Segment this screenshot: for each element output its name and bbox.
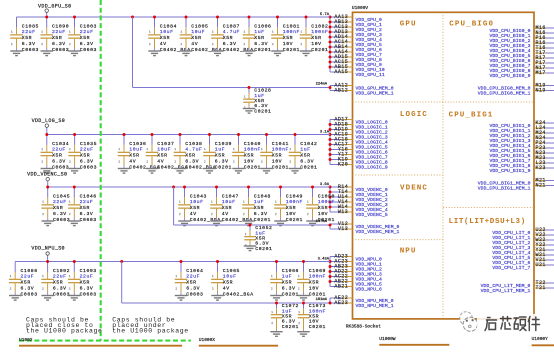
svg-text:1: 1 [245, 233, 247, 236]
junction dots branch VDD_GPU_S0 [248, 86, 251, 89]
ground [68, 169, 80, 174]
pin N19 VDD_CPU_BIG0_MEM_1 [478, 87, 554, 96]
svg-text:22uF: 22uF [53, 199, 67, 205]
svg-text:C1043: C1043 [190, 193, 207, 199]
selection boundary horizontal (green dashed) [19, 340, 191, 342]
capacitor C1043 [178, 187, 220, 226]
svg-text:V13: V13 [338, 226, 348, 232]
svg-text:224mA: 224mA [316, 83, 328, 87]
svg-text:2: 2 [275, 213, 277, 216]
svg-text:22uF: 22uF [52, 29, 66, 35]
svg-text:VDD_NPU_6: VDD_NPU_6 [356, 286, 382, 292]
pin fan CPU_BIG0 [489, 25, 554, 79]
svg-text:1uF: 1uF [282, 308, 292, 314]
power port VDD_VDENC_S0 [27, 171, 67, 181]
pin fan VDENC [329, 184, 388, 218]
wire port drop VDD_GPU_S0 [46, 12, 48, 17]
svg-text:1: 1 [41, 31, 43, 34]
svg-text:2: 2 [204, 160, 206, 163]
pin V21 VDD_CPU_LIT_6 [492, 257, 554, 266]
svg-text:3.1A: 3.1A [320, 130, 330, 134]
svg-text:C1049: C1049 [286, 193, 303, 199]
svg-text:10uF: 10uF [223, 274, 237, 280]
svg-text:4V: 4V [129, 159, 136, 165]
svg-text:1: 1 [244, 95, 246, 98]
svg-text:N21: N21 [536, 182, 546, 188]
svg-text:C0603: C0603 [52, 164, 69, 170]
wire branch drop VDD_GPU_S0 [132, 17, 134, 88]
ground [270, 296, 282, 301]
svg-text:C0603: C0603 [53, 291, 70, 297]
svg-text:2: 2 [149, 43, 151, 46]
svg-text:6.3V: 6.3V [282, 319, 296, 325]
svg-text:AE23: AE23 [334, 300, 348, 306]
ground [10, 51, 22, 56]
svg-text:X5R: X5R [160, 35, 170, 41]
svg-text:M17: M17 [536, 70, 546, 76]
svg-text:VDD_CPU_BIG0_9: VDD_CPU_BIG0_9 [489, 73, 530, 79]
svg-text:22uF: 22uF [53, 274, 67, 280]
ground [274, 221, 286, 226]
pin M19 VDD_CPU_BIG0_MEM_0 [478, 82, 554, 91]
svg-text:C1086: C1086 [21, 268, 38, 274]
svg-text:the U1000 package: the U1000 package [112, 328, 189, 335]
pin AE23 VDD_NPU_MEM_1 [330, 300, 394, 309]
svg-text:C1085: C1085 [22, 23, 39, 29]
svg-text:6.3V: 6.3V [22, 41, 36, 47]
svg-text:U1000W: U1000W [379, 336, 396, 342]
svg-text:C0402_BGA: C0402_BGA [157, 164, 188, 170]
svg-text:4V: 4V [160, 41, 167, 47]
pin Y17 VDD_LOGIC_7 [330, 151, 388, 160]
ground [242, 221, 254, 226]
svg-text:1: 1 [175, 275, 177, 278]
svg-text:C0201: C0201 [300, 164, 317, 170]
svg-text:C0603: C0603 [80, 291, 97, 297]
svg-text:10V: 10V [309, 319, 319, 325]
section divider horizontal GPU/LOGIC [353, 101, 535, 103]
svg-text:C1084: C1084 [160, 23, 177, 29]
svg-text:C0201: C0201 [309, 291, 326, 297]
capacitor C1049 [274, 187, 303, 226]
svg-text:C1003: C1003 [80, 23, 97, 29]
power port VDD_LOG_S0 [32, 118, 66, 128]
wire branch fan VDD_NPU_S0 [329, 298, 331, 303]
pin Y16 VDD_LOGIC_6 [330, 146, 388, 155]
svg-text:C1042: C1042 [300, 141, 317, 147]
pin T21 VDD_CPU_LIT_MEM_1 [481, 285, 554, 294]
pin R16 VDD_CPU_BIG0_3 [489, 40, 554, 49]
wire branch VDD_NPU_S0 [122, 302, 330, 304]
capacitor C1081 [271, 17, 300, 56]
svg-text:VDD_NPU_S0: VDD_NPU_S0 [31, 246, 65, 252]
svg-text:VDD_CPU_BIG1_MEM_1: VDD_CPU_BIG1_MEM_1 [478, 185, 531, 191]
svg-text:6.3V: 6.3V [52, 159, 66, 165]
pin AD22 VDD_NPU_3 [330, 268, 382, 277]
svg-text:X5R: X5R [309, 314, 319, 320]
svg-text:2: 2 [298, 322, 300, 325]
svg-text:C0603: C0603 [22, 47, 39, 53]
pin M23 VDD_CPU_BIG1_7 [489, 155, 554, 164]
svg-text:X5R: X5R [318, 205, 328, 211]
svg-text:1: 1 [211, 201, 213, 204]
pin N21 VDD_CPU_BIG1_MEM_1 [478, 182, 554, 191]
pin AB14 VDD_GPU_6 [330, 44, 382, 53]
svg-text:X5R: X5R [244, 153, 254, 159]
svg-text:6.3V: 6.3V [80, 286, 94, 292]
svg-text:VDD_VDENC_MEM_1: VDD_VDENC_MEM_1 [356, 229, 400, 235]
svg-text:6.3V: 6.3V [52, 41, 66, 47]
ground [210, 221, 222, 226]
svg-text:6.3V: 6.3V [80, 41, 94, 47]
svg-text:U1000V: U1000V [352, 5, 369, 11]
svg-text:X5R: X5R [282, 314, 292, 320]
section divider horizontal CPU_BIG1/LIT [443, 206, 534, 208]
svg-text:the U1000 package: the U1000 package [26, 328, 103, 335]
pin AA14 VDD_GPU_7 [330, 49, 382, 58]
svg-text:6.3V: 6.3V [254, 211, 268, 217]
capacitor C1037 [146, 135, 188, 174]
ground [68, 296, 80, 301]
pin M21 VDD_CPU_BIG1_MEM_0 [478, 177, 554, 186]
pin fan CPU_BIG1 MEM [478, 177, 554, 191]
svg-text:C1093: C1093 [80, 268, 97, 274]
svg-text:2: 2 [289, 160, 291, 163]
svg-text:2: 2 [69, 213, 71, 216]
svg-text:C1048: C1048 [254, 193, 271, 199]
svg-text:2: 2 [42, 287, 44, 290]
svg-text:10uF: 10uF [191, 29, 205, 35]
svg-text:1: 1 [179, 201, 181, 204]
pin AB22 VDD_NPU_5 [330, 278, 382, 287]
junction dots VDD_NPU_S0 [46, 260, 305, 263]
pin fan LIT MEM [481, 280, 554, 294]
ground [118, 169, 130, 174]
pin N16 VDD_CPU_BIG0_1 [489, 30, 554, 39]
svg-text:C1039: C1039 [215, 141, 232, 147]
svg-text:C1036: C1036 [129, 141, 146, 147]
pin AC14 VDD_GPU_5 [330, 39, 382, 48]
symbol fragment edge below U1000X [199, 345, 278, 347]
svg-text:1: 1 [275, 201, 277, 204]
ground [260, 169, 272, 174]
svg-text:6.3V: 6.3V [254, 41, 268, 47]
svg-text:X5R: X5R [53, 280, 63, 286]
svg-text:1: 1 [272, 31, 274, 34]
svg-text:100nF: 100nF [283, 29, 300, 35]
svg-text:2: 2 [175, 287, 177, 290]
svg-text:U21: U21 [536, 262, 546, 268]
svg-text:22uF: 22uF [80, 147, 94, 153]
svg-text:22uF: 22uF [80, 29, 94, 35]
svg-text:1: 1 [149, 31, 151, 34]
svg-text:C1087: C1087 [223, 23, 240, 29]
ground [211, 51, 223, 56]
pin W14 VDD_VDENC_4 [330, 204, 388, 213]
wire bus VDD_VDENC_S0 [48, 186, 330, 188]
pin K23 VDD_CPU_BIG1_9 [489, 165, 554, 174]
ground [180, 51, 192, 56]
wire branch drop VDD_NPU_S0 [121, 262, 123, 304]
svg-text:1: 1 [42, 275, 44, 278]
svg-text:10uF: 10uF [160, 29, 174, 35]
svg-text:C1072: C1072 [282, 303, 299, 309]
svg-text:4V: 4V [190, 211, 197, 217]
svg-text:1: 1 [289, 148, 291, 151]
svg-text:2: 2 [42, 213, 44, 216]
pin K24 VDD_CPU_BIG1_0 [489, 120, 554, 129]
svg-text:2: 2 [41, 160, 43, 163]
svg-text:VDD_CPU_LIT_MEM_1: VDD_CPU_LIT_MEM_1 [481, 288, 531, 294]
svg-text:X5R: X5R [215, 153, 225, 159]
svg-text:6.3V: 6.3V [80, 211, 94, 217]
svg-text:100nF: 100nF [244, 147, 261, 153]
svg-text:3.43A: 3.43A [318, 257, 330, 261]
svg-text:1: 1 [41, 148, 43, 151]
junction dots branch VDD_NPU_S0 [275, 302, 305, 305]
svg-text:AA15: AA15 [334, 69, 348, 75]
svg-text:10uF: 10uF [129, 147, 143, 153]
capacitor C1050 [306, 187, 335, 226]
pin AD14 VDD_GPU_4 [330, 34, 382, 43]
pin P24 VDD_CPU_BIG1_4 [489, 140, 554, 149]
ground [178, 221, 190, 226]
svg-text:C1037: C1037 [157, 141, 174, 147]
svg-text:1: 1 [69, 148, 71, 151]
svg-text:C1047: C1047 [222, 193, 239, 199]
svg-text:C0201: C0201 [254, 217, 271, 223]
svg-text:C1069: C1069 [309, 268, 326, 274]
pin U21 VDD_CPU_LIT_7 [492, 262, 554, 271]
svg-text:C1050: C1050 [318, 193, 335, 199]
svg-text:C0201: C0201 [282, 291, 299, 297]
pin AC18 VDD_LOGIC_4 [330, 136, 388, 145]
svg-text:C0603: C0603 [186, 291, 203, 297]
wire branch VDD_VDENC_S0 [174, 224, 330, 226]
svg-text:VDD_CPU_BIG1_9: VDD_CPU_BIG1_9 [489, 168, 530, 174]
note text: caps under package [112, 316, 189, 334]
capacitor C1082 [300, 17, 329, 56]
svg-text:C0402_BGA: C0402_BGA [129, 164, 160, 170]
svg-text:22uF: 22uF [21, 274, 35, 280]
svg-text:X5R: X5R [80, 280, 90, 286]
svg-text:X5R: X5R [191, 35, 201, 41]
svg-text:X5R: X5R [80, 205, 90, 211]
junction dots VDD_LOG_S0 [45, 133, 296, 136]
svg-text:C1073: C1073 [309, 303, 326, 309]
svg-text:C1081: C1081 [283, 23, 300, 29]
pin fan LIT [492, 227, 554, 271]
capacitor C1052 [244, 225, 273, 252]
pin N17 VDD_CPU_BIG0_8 [489, 65, 554, 74]
svg-text:6.3V: 6.3V [185, 159, 199, 165]
svg-text:C1092: C1092 [53, 268, 70, 274]
svg-text:X5R: X5R [157, 153, 167, 159]
svg-text:10V: 10V [283, 41, 293, 47]
pin Y22 VDD_CPU_LIT_3 [492, 242, 554, 251]
svg-text:2: 2 [271, 287, 273, 290]
svg-text:AB21: AB21 [334, 283, 348, 289]
svg-text:1uF: 1uF [255, 230, 265, 236]
svg-text:1: 1 [298, 311, 300, 314]
svg-text:2: 2 [243, 43, 245, 46]
svg-text:100nF: 100nF [272, 147, 289, 153]
pin AC15 VDD_GPU_9 [330, 59, 382, 68]
svg-text:X5R: X5R [309, 280, 319, 286]
svg-text:X5R: X5R [223, 280, 233, 286]
power port VDD_GPU_S0 [38, 4, 72, 13]
svg-text:22uF: 22uF [186, 274, 200, 280]
svg-text:10uF: 10uF [222, 199, 236, 205]
pin fan GPU [329, 14, 385, 78]
capacitor C1093 [68, 262, 97, 301]
pin T14 VDD_VDENC_1 [330, 189, 388, 198]
svg-text:6.3V: 6.3V [53, 286, 67, 292]
capacitor C1064 [175, 262, 204, 301]
ground [243, 109, 255, 114]
section divider horizontal VDENC/NPU [353, 239, 444, 241]
svg-text:C1041: C1041 [272, 141, 289, 147]
svg-text:N19: N19 [536, 87, 546, 93]
svg-text:2: 2 [180, 43, 182, 46]
capacitor C1028 [243, 88, 272, 115]
ground [271, 51, 283, 56]
svg-text:RK3588-Socket: RK3588-Socket [346, 324, 381, 330]
svg-text:U1000X: U1000X [199, 337, 216, 343]
wire bus VDD_NPU_S0 [15, 261, 330, 263]
svg-text:GPU: GPU [400, 20, 417, 28]
svg-text:X5R: X5R [53, 205, 63, 211]
pin K19 VDD_LOGIC_8 [330, 156, 388, 165]
svg-text:1: 1 [243, 31, 245, 34]
capacitor C1005 [180, 17, 222, 56]
pin R14 VDD_VDENC_0 [330, 184, 388, 193]
svg-text:10V: 10V [244, 159, 254, 165]
ground [41, 296, 53, 301]
wire branch VDD_GPU_S0 [133, 87, 331, 89]
svg-text:1uF: 1uF [254, 29, 264, 35]
svg-text:T21: T21 [536, 285, 546, 291]
svg-text:2: 2 [300, 43, 302, 46]
svg-text:C0201: C0201 [254, 108, 271, 114]
svg-text:22uF: 22uF [52, 147, 66, 153]
wire port drop VDD_VDENC_S0 [47, 181, 49, 187]
svg-text:4V: 4V [223, 286, 230, 292]
ground [175, 296, 187, 301]
svg-text:4.7uF: 4.7uF [223, 29, 240, 35]
ground [9, 296, 21, 301]
pin AC23 VDD_NPU_1 [330, 258, 382, 267]
pin fan GPU MEM [330, 82, 394, 96]
svg-text:2: 2 [174, 160, 176, 163]
svg-text:2: 2 [118, 160, 120, 163]
pin P23 VDD_CPU_BIG1_5 [489, 145, 554, 154]
ground [68, 51, 80, 56]
svg-text:X5R: X5R [21, 280, 31, 286]
svg-text:10V: 10V [311, 41, 321, 47]
svg-text:X5R: X5R [80, 35, 90, 41]
svg-text:K23: K23 [536, 165, 546, 171]
wire port drop VDD_LOG_S0 [46, 127, 48, 134]
svg-text:C0603: C0603 [21, 291, 38, 297]
ground [42, 221, 54, 226]
IC U1000 RK3588-Socket body [353, 12, 535, 319]
svg-text:C0201: C0201 [272, 164, 289, 170]
svg-text:X5R: X5R [129, 153, 139, 159]
capacitor C1034 [41, 135, 70, 174]
pin AD13 VDD_GPU_3 [330, 29, 382, 38]
svg-text:X5R: X5R [255, 236, 265, 242]
svg-text:2: 2 [233, 160, 235, 163]
capacitor C1084 [148, 17, 190, 56]
svg-text:X5R: X5R [80, 153, 90, 159]
pin M24 VDD_CPU_BIG1_2 [489, 130, 554, 139]
capacitor C1039 [203, 135, 232, 174]
svg-text:X5R: X5R [286, 205, 296, 211]
capacitor C1087 [211, 17, 253, 56]
ground [148, 51, 160, 56]
ground [68, 221, 80, 226]
svg-text:4V: 4V [191, 41, 198, 47]
svg-text:C0603: C0603 [80, 47, 97, 53]
pin T22 VDD_CPU_LIT_MEM_0 [481, 280, 554, 289]
svg-text:6.3V: 6.3V [282, 286, 296, 292]
svg-text:X5R: X5R [300, 153, 310, 159]
svg-text:X5R: X5R [283, 35, 293, 41]
svg-text:X5R: X5R [22, 35, 32, 41]
svg-text:2: 2 [298, 287, 300, 290]
capacitor C1035 [68, 135, 97, 174]
svg-text:X5R: X5R [185, 153, 195, 159]
pin AD17 VDD_LOGIC_0 [330, 116, 388, 125]
junction node branch fan VDD_NPU_S0 [329, 302, 332, 305]
svg-text:C0201: C0201 [283, 47, 300, 53]
svg-text:6.3V: 6.3V [186, 286, 200, 292]
ground [203, 169, 215, 174]
svg-text:2: 2 [41, 43, 43, 46]
selection boundary vertical (green dashed) [100, 0, 102, 341]
junction node VDENC bus entry [329, 186, 332, 189]
pin AD23 VDD_NPU_0 [330, 253, 382, 262]
pin AB15 VDD_GPU_10 [330, 64, 385, 73]
capacitor C1090 [40, 17, 69, 56]
svg-text:VDD_CPU_LIT_7: VDD_CPU_LIT_7 [492, 265, 530, 271]
svg-text:1: 1 [261, 148, 263, 151]
pin AC17 VDD_LOGIC_5 [330, 141, 388, 150]
ground [41, 51, 53, 56]
svg-text:VDD_GPU_11: VDD_GPU_11 [356, 72, 385, 78]
capacitor C1038 [174, 135, 216, 174]
junction node branch fan VDD_GPU_S0 [329, 86, 332, 89]
svg-text:100nF: 100nF [286, 199, 303, 205]
svg-text:C1034: C1034 [52, 141, 69, 147]
svg-text:2: 2 [211, 213, 213, 216]
svg-text:2: 2 [307, 213, 309, 216]
capacitor C1047 [210, 187, 252, 226]
svg-text:181mA: 181mA [316, 298, 328, 302]
svg-text:2: 2 [271, 322, 273, 325]
svg-text:C0201: C0201 [255, 246, 272, 252]
ground [306, 221, 318, 226]
svg-text:C1005: C1005 [191, 23, 208, 29]
pin W22 VDD_CPU_LIT_2 [492, 237, 554, 246]
pin AC22 VDD_NPU_4 [330, 273, 382, 282]
pin fan CPU_BIG1 [489, 120, 554, 174]
wire branch fan VDD_GPU_S0 [329, 86, 331, 91]
symbol fragment edge below U1002 [19, 345, 182, 347]
svg-text:10uF: 10uF [157, 147, 171, 153]
wire branch fan VDD_VDENC_S0 [329, 224, 331, 229]
